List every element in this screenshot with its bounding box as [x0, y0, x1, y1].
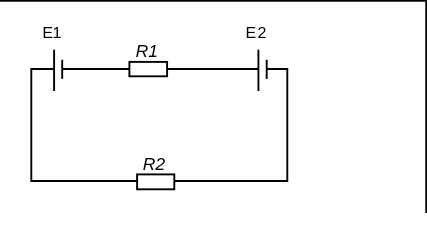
svg-text:R1: R1	[136, 41, 158, 61]
wire top segment R1 to E2 tall plate	[167, 68, 258, 70]
battery E1	[54, 50, 62, 91]
svg-text:E1: E1	[42, 25, 61, 42]
svg-text:R2: R2	[143, 154, 166, 174]
svg-text:E2: E2	[246, 25, 268, 42]
resistor R1	[129, 62, 167, 76]
wire right+bottom-right segment (E2 short plate to R2 right)	[175, 69, 287, 181]
battery E2	[258, 50, 266, 91]
resistor R2	[137, 174, 174, 189]
wire left+bottom-left segment (R2 left to E1 tall plate)	[31, 69, 136, 181]
wire top segment E1 short plate to R1	[62, 68, 130, 70]
